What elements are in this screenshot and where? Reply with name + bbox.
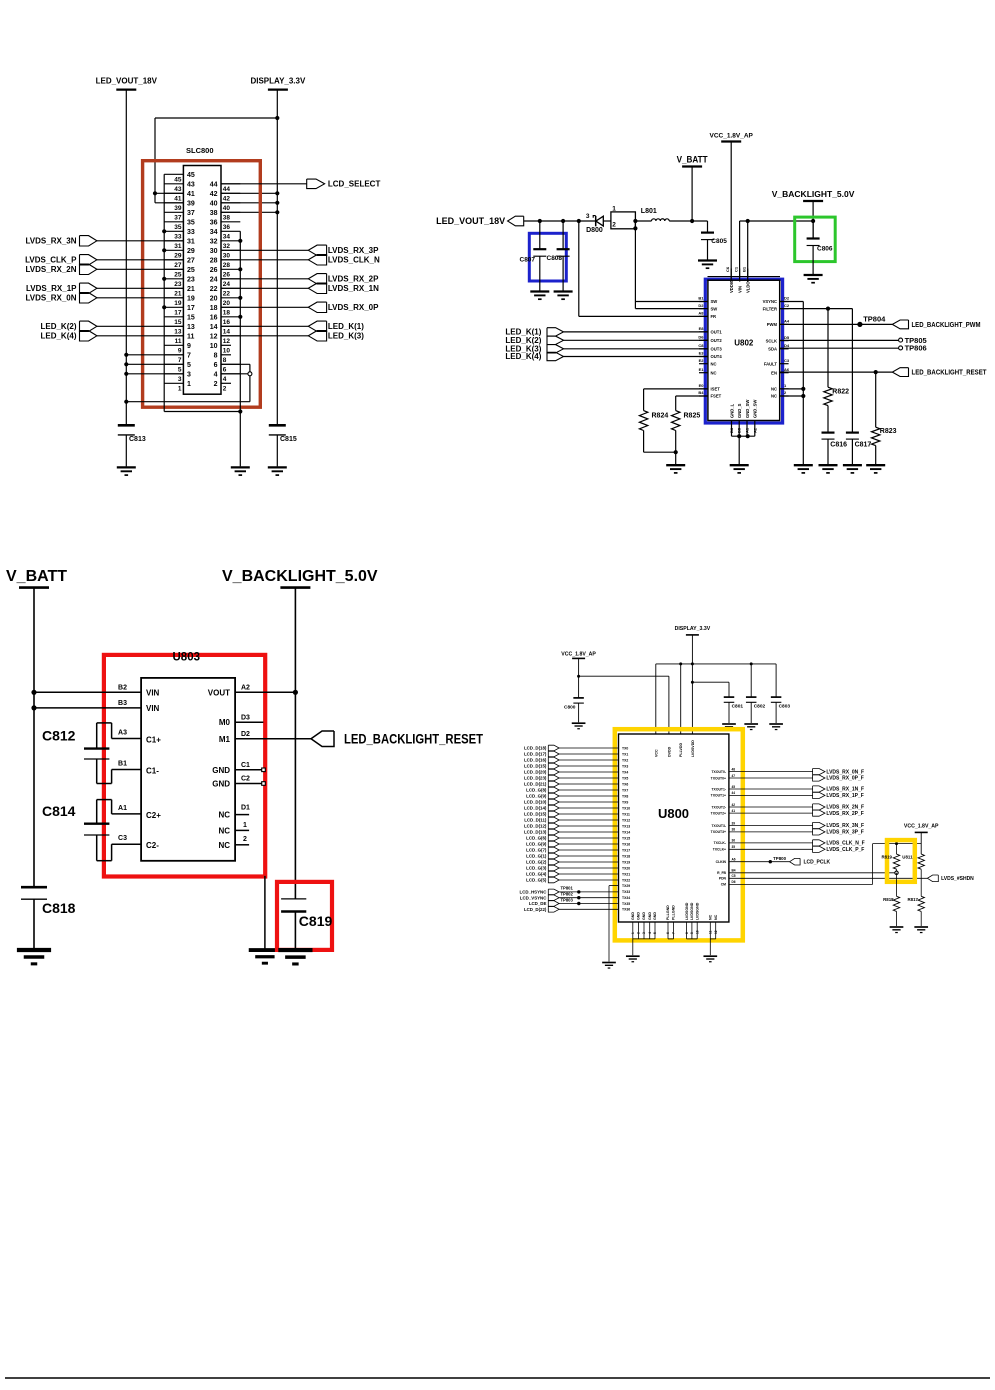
svg-text:C816: C816	[830, 442, 847, 449]
svg-text:45: 45	[174, 177, 182, 184]
svg-text:36: 36	[732, 839, 736, 843]
svg-text:TX10: TX10	[622, 806, 630, 810]
wire pins41-39 to DISPLAY_3.3V	[153, 118, 277, 203]
wire VCC to VDDIO	[730, 142, 732, 282]
svg-text:LVDS_RX_1P_F: LVDS_RX_1P_F	[826, 793, 863, 799]
svg-text:PDN: PDN	[719, 877, 727, 881]
svg-text:LVDSGND: LVDSGND	[695, 902, 699, 920]
svg-text:U811: U811	[902, 855, 913, 860]
svg-text:LCD_D(16): LCD_D(16)	[524, 758, 547, 763]
svg-text:VOUT: VOUT	[208, 688, 230, 697]
svg-text:10: 10	[223, 348, 231, 355]
svg-text:GND_S: GND_S	[737, 403, 742, 418]
svg-text:TP806: TP806	[905, 344, 927, 353]
svg-text:44: 44	[732, 791, 736, 795]
svg-text:V_BACKLIGHT_5.0V: V_BACKLIGHT_5.0V	[772, 189, 855, 199]
svg-text:25: 25	[174, 272, 182, 279]
ground C818	[17, 950, 51, 964]
svg-text:11: 11	[709, 930, 713, 934]
svg-text:B1: B1	[118, 761, 127, 768]
ground middle	[231, 467, 250, 475]
svg-text:TX19: TX19	[622, 860, 630, 864]
svg-text:L801: L801	[641, 208, 657, 215]
wire pin5 to rail	[126, 363, 183, 365]
svg-text:GND: GND	[212, 780, 230, 789]
svg-text:A8: A8	[698, 311, 704, 316]
svg-text:R825: R825	[684, 413, 701, 420]
capacitor C817	[846, 433, 872, 466]
ground C803	[769, 724, 783, 730]
svg-text:42: 42	[732, 803, 736, 807]
svg-text:A4: A4	[784, 319, 790, 324]
svg-text:36: 36	[210, 219, 218, 226]
svg-text:TX34: TX34	[622, 896, 630, 900]
wire LVDS_RX_1N	[221, 287, 308, 289]
svg-text:TXOUT3+: TXOUT3+	[711, 830, 726, 834]
svg-text:1: 1	[243, 822, 247, 829]
svg-text:E3: E3	[699, 351, 705, 356]
port LED_K(4)	[40, 331, 96, 341]
svg-text:A6: A6	[732, 858, 736, 862]
svg-text:LCD_VSYNC: LCD_VSYNC	[520, 895, 547, 900]
svg-text:DVDD: DVDD	[667, 746, 671, 757]
svg-text:LCD_HSYNC: LCD_HSYNC	[520, 890, 548, 895]
svg-text:M0: M0	[219, 718, 231, 727]
svg-text:LCD_D(15): LCD_D(15)	[524, 812, 547, 817]
svg-text:18: 18	[223, 310, 231, 317]
ground C817	[843, 465, 862, 473]
port LED_K(3)	[308, 331, 364, 341]
svg-text:NC: NC	[709, 914, 713, 920]
ground C802	[744, 724, 758, 730]
port LVDS_CLK_P	[25, 255, 97, 265]
capacitor C813	[118, 425, 146, 443]
svg-text:SCLK: SCLK	[766, 338, 777, 343]
svg-text:NC: NC	[711, 361, 717, 366]
wire R822 to C816	[827, 406, 829, 433]
svg-text:C806: C806	[817, 246, 833, 253]
svg-text:37: 37	[174, 215, 182, 222]
wire LCD_PCLK	[716, 858, 790, 865]
resistor R819	[882, 844, 914, 875]
svg-text:A6: A6	[784, 367, 790, 372]
svg-text:10: 10	[695, 930, 699, 934]
ground C815	[268, 467, 287, 475]
ground C813	[117, 467, 136, 475]
svg-text:7: 7	[672, 932, 676, 934]
svg-text:LVDSVDD: LVDSVDD	[691, 740, 695, 757]
resistor R822	[824, 387, 849, 405]
power flag V_BACKLIGHT_5.0V (U802)	[772, 189, 855, 201]
svg-text:SDA: SDA	[768, 347, 777, 352]
svg-text:31: 31	[187, 238, 195, 245]
wire LCD_SELECT	[221, 183, 307, 185]
svg-text:SLC800: SLC800	[186, 146, 214, 155]
svg-text:VCC: VCC	[654, 749, 658, 757]
svg-text:27: 27	[187, 257, 195, 264]
svg-text:U803: U803	[173, 652, 201, 664]
svg-text:D3: D3	[241, 714, 250, 721]
svg-text:C1-: C1-	[146, 766, 159, 775]
ground R823	[866, 465, 885, 473]
IC U802 right pins	[763, 296, 790, 399]
resistor R823	[872, 427, 897, 445]
port LED_K(3) (U802)	[505, 344, 563, 353]
svg-text:LVDS_CLK_N: LVDS_CLK_N	[328, 256, 380, 265]
svg-text:TX0: TX0	[622, 746, 628, 750]
svg-text:LCD_PCLK: LCD_PCLK	[804, 859, 831, 865]
wire LED_K(1)	[221, 325, 308, 327]
svg-text:NC: NC	[218, 826, 230, 835]
ports LCD data bus	[524, 745, 630, 883]
node TP804	[857, 314, 886, 327]
svg-text:12: 12	[210, 333, 218, 340]
svg-text:24: 24	[223, 281, 231, 288]
svg-text:OUT2: OUT2	[711, 338, 723, 343]
wire VSYNC to gnd	[780, 302, 806, 466]
svg-text:A3: A3	[118, 730, 127, 737]
svg-text:TX2: TX2	[622, 758, 628, 762]
svg-text:LED_VOUT_18V: LED_VOUT_18V	[436, 216, 505, 226]
svg-text:EN: EN	[771, 370, 777, 375]
wire pins6-4 to rail	[126, 364, 252, 401]
svg-text:3: 3	[178, 376, 182, 383]
wire CLKSEL net	[721, 842, 921, 887]
svg-text:C2+: C2+	[146, 811, 161, 820]
ground C816	[819, 465, 838, 473]
port LCD_SELECT	[307, 179, 381, 189]
svg-text:LCD_G(9): LCD_G(9)	[526, 794, 547, 799]
svg-text:B3: B3	[118, 700, 127, 707]
svg-text:TX1: TX1	[622, 752, 628, 756]
svg-text:DISPLAY_3.3V: DISPLAY_3.3V	[675, 626, 711, 632]
highlight box SLC800	[143, 161, 261, 408]
svg-text:OUT3: OUT3	[711, 347, 723, 352]
svg-text:C2: C2	[241, 776, 250, 783]
svg-text:22: 22	[210, 286, 218, 293]
svg-text:27: 27	[174, 262, 182, 269]
svg-text:16: 16	[223, 319, 231, 326]
svg-text:C815: C815	[280, 436, 297, 443]
port LVDS_RX_2N	[26, 264, 97, 274]
svg-text:C808: C808	[547, 255, 563, 262]
svg-text:7: 7	[187, 352, 191, 359]
svg-text:D2: D2	[698, 303, 704, 308]
svg-text:C801: C801	[732, 704, 744, 710]
svg-text:1: 1	[178, 386, 182, 393]
svg-text:25: 25	[187, 267, 195, 274]
svg-text:FSET: FSET	[711, 394, 722, 399]
wire left ground bus	[162, 174, 242, 413]
wire LED_K(1) (U802)	[564, 331, 708, 333]
svg-text:D4: D4	[784, 343, 790, 348]
svg-text:TXOUT3-: TXOUT3-	[711, 824, 726, 828]
wire U800 nc drop	[709, 939, 711, 955]
svg-text:10: 10	[210, 343, 218, 350]
svg-text:LCD_G(6): LCD_G(6)	[526, 836, 547, 841]
svg-text:TX5: TX5	[622, 776, 628, 780]
svg-text:FAULT: FAULT	[764, 361, 778, 366]
wire FB tap	[579, 221, 708, 316]
svg-text:C802: C802	[754, 704, 766, 710]
svg-text:TX7: TX7	[622, 788, 628, 792]
svg-text:E0: E0	[699, 383, 705, 388]
svg-text:33: 33	[174, 234, 182, 241]
diode D800 package	[611, 205, 636, 228]
wire pin42 to rail	[221, 192, 277, 194]
connector SLC800 pins	[164, 172, 240, 393]
wire LED_K(3)	[221, 335, 308, 337]
svg-text:LCD_D(13): LCD_D(13)	[524, 830, 547, 835]
svg-text:VIN: VIN	[146, 704, 160, 713]
svg-text:LCD_D(17): LCD_D(17)	[524, 752, 547, 757]
port LED_K(2)	[40, 321, 96, 331]
svg-text:17: 17	[187, 305, 195, 312]
svg-text:LCD_G(4): LCD_G(4)	[526, 872, 547, 877]
svg-text:SW: SW	[711, 299, 718, 304]
svg-text:C1+: C1+	[146, 735, 161, 744]
ground R817	[914, 927, 928, 933]
svg-text:12: 12	[714, 930, 718, 934]
power flag V_BATT (U803)	[6, 568, 67, 588]
resistor R817	[908, 896, 925, 926]
highlight box C807 C808	[529, 233, 566, 281]
svg-text:12: 12	[223, 338, 231, 345]
ground unused TX	[602, 963, 616, 969]
svg-text:15: 15	[187, 314, 195, 321]
svg-text:TP801: TP801	[561, 886, 574, 891]
svg-text:42: 42	[223, 196, 231, 203]
svg-text:48: 48	[732, 767, 736, 771]
ground C801	[722, 724, 736, 730]
wire pin40 to rail	[221, 202, 277, 204]
svg-text:LVDS_RX_2P_F: LVDS_RX_2P_F	[826, 811, 863, 817]
svg-text:C807: C807	[520, 257, 536, 264]
svg-text:TX3: TX3	[622, 764, 628, 768]
svg-text:LED_K(4): LED_K(4)	[40, 331, 76, 340]
svg-text:B1: B1	[742, 266, 747, 272]
svg-text:20: 20	[210, 295, 218, 302]
svg-text:29: 29	[174, 253, 182, 260]
wire LVDS_CLK_N	[221, 259, 308, 261]
svg-text:GND_SW: GND_SW	[753, 400, 758, 418]
IC U803 right pin labels	[208, 684, 250, 850]
svg-text:LVDS_RX_0N: LVDS_RX_0N	[26, 293, 77, 302]
port LVDS_CLK_N	[308, 255, 380, 265]
svg-text:6: 6	[223, 367, 227, 374]
svg-text:LVDS_RX_0P_F: LVDS_RX_0P_F	[826, 776, 863, 782]
svg-text:1: 1	[612, 205, 616, 212]
svg-text:U802: U802	[734, 339, 754, 348]
svg-text:TP803: TP803	[561, 897, 574, 902]
wire R823 to gnd	[875, 446, 877, 466]
port LVDS_RX_3P	[308, 245, 379, 255]
wire PDN net	[719, 874, 928, 881]
svg-text:19: 19	[174, 300, 182, 307]
svg-text:LED_BACKLIGHT_RESET: LED_BACKLIGHT_RESET	[912, 368, 987, 377]
highlight box U803	[104, 655, 265, 877]
svg-text:LED_VOUT_18V: LED_VOUT_18V	[96, 77, 158, 86]
ground C819	[278, 950, 312, 964]
svg-text:TX8: TX8	[622, 794, 628, 798]
svg-text:D5: D5	[784, 335, 790, 340]
wire pin38 to rail	[221, 211, 277, 213]
ground C805	[698, 261, 717, 269]
svg-text:40: 40	[223, 205, 231, 212]
svg-text:CM: CM	[721, 883, 726, 887]
wire VIN B3	[34, 707, 141, 709]
svg-text:A1: A1	[745, 427, 750, 433]
svg-text:1: 1	[631, 932, 635, 934]
svg-text:C800: C800	[564, 705, 576, 711]
svg-text:V_BATT: V_BATT	[677, 155, 708, 165]
capacitor C819	[281, 899, 332, 949]
ports LVDS outputs	[711, 767, 865, 853]
wire ISET	[644, 389, 708, 411]
svg-text:14: 14	[223, 329, 231, 336]
svg-text:TX14: TX14	[622, 830, 630, 834]
svg-text:A2: A2	[752, 427, 757, 433]
svg-text:NC: NC	[714, 914, 718, 920]
svg-text:TX13: TX13	[622, 824, 630, 828]
svg-text:OUT4: OUT4	[711, 354, 723, 359]
svg-text:U800: U800	[658, 806, 689, 821]
svg-text:LCD_D(10): LCD_D(10)	[524, 800, 547, 805]
svg-text:B1: B1	[698, 296, 704, 301]
svg-text:LED_BACKLIGHT_PWM: LED_BACKLIGHT_PWM	[912, 320, 981, 329]
svg-text:TX4: TX4	[622, 770, 628, 774]
svg-text:B4: B4	[698, 390, 704, 395]
wire NC pins to gnd line	[780, 389, 804, 396]
svg-text:C8: C8	[698, 343, 704, 348]
svg-text:9: 9	[690, 932, 694, 934]
svg-text:14: 14	[210, 324, 218, 331]
svg-text:42: 42	[210, 191, 218, 198]
svg-text:LVDS_RX_1N_F: LVDS_RX_1N_F	[826, 787, 864, 793]
op-amp U802 highlight box	[705, 279, 782, 423]
svg-text:LCD_D(14): LCD_D(14)	[524, 806, 547, 811]
svg-text:NC: NC	[771, 387, 777, 392]
svg-text:C3: C3	[118, 835, 127, 842]
svg-text:TXOUT2+: TXOUT2+	[711, 811, 726, 815]
svg-text:TXOUT2-: TXOUT2-	[711, 805, 726, 809]
svg-text:LVDS_RX_3P: LVDS_RX_3P	[328, 246, 379, 255]
capacitor C816	[822, 433, 848, 466]
wire LVDS_RX_1P	[97, 287, 183, 289]
capacitor C815	[269, 425, 297, 443]
svg-text:35: 35	[174, 224, 182, 231]
svg-text:45: 45	[187, 172, 195, 179]
wire M0 stub	[235, 721, 263, 723]
svg-text:TP802: TP802	[561, 892, 574, 897]
capacitor C818	[21, 887, 76, 948]
wire LED_K(4) (U802)	[564, 356, 708, 358]
capacitor C803	[771, 697, 791, 723]
highlight box C806	[795, 217, 836, 262]
svg-text:DISPLAY_3.3V: DISPLAY_3.3V	[250, 77, 306, 86]
ground U800 nc	[703, 956, 717, 962]
resistor R825	[672, 411, 701, 431]
node TP805	[899, 336, 927, 345]
wire LED_K(3) (U802)	[564, 348, 708, 350]
svg-text:VDDIO: VDDIO	[729, 279, 734, 293]
port LED_K(2) (U802)	[505, 336, 563, 345]
svg-text:45: 45	[732, 785, 736, 789]
svg-text:M1: M1	[219, 735, 231, 744]
svg-text:B4: B4	[732, 869, 736, 873]
svg-text:V_BACKLIGHT_5.0V: V_BACKLIGHT_5.0V	[222, 568, 378, 585]
svg-text:LVDS_RX_0N_F: LVDS_RX_0N_F	[826, 769, 864, 775]
svg-text:D6: D6	[732, 880, 736, 884]
node TP800	[769, 856, 787, 863]
svg-text:38: 38	[210, 210, 218, 217]
svg-text:LVDSGND: LVDSGND	[685, 902, 689, 920]
svg-text:LED_K(2): LED_K(2)	[40, 322, 76, 331]
svg-text:LCD_G(3): LCD_G(3)	[526, 866, 547, 871]
svg-text:TX29: TX29	[622, 884, 630, 888]
power flag V_BACKLIGHT_5.0V (U803)	[222, 568, 378, 588]
svg-text:47: 47	[732, 774, 736, 778]
capacitor C801	[724, 697, 744, 723]
IC U803 left pin labels	[118, 684, 161, 850]
svg-text:13: 13	[187, 324, 195, 331]
svg-text:2: 2	[214, 381, 218, 388]
wire GND pins (U803)	[235, 768, 265, 949]
svg-text:C6: C6	[725, 266, 730, 272]
svg-text:LCD_G(8): LCD_G(8)	[526, 788, 547, 793]
highlight box U800	[615, 729, 743, 940]
svg-text:LCD_SELECT: LCD_SELECT	[328, 180, 381, 189]
power flag LED_VOUT_18V	[96, 77, 158, 90]
svg-text:29: 29	[187, 248, 195, 255]
svg-text:LVDS_RX_3P_F: LVDS_RX_3P_F	[826, 830, 863, 836]
capacitor C808	[547, 221, 570, 291]
ground C800	[572, 723, 586, 729]
wire SDA	[780, 347, 899, 349]
wire pin7 to rail	[126, 354, 183, 356]
wire VCC net (U800)	[577, 658, 669, 734]
port LED_BACKLIGHT_PWM	[892, 320, 980, 329]
capacitor C805	[701, 221, 727, 260]
svg-text:V_BATT: V_BATT	[6, 568, 67, 585]
svg-text:18: 18	[210, 305, 218, 312]
wire unused TX to gnd	[609, 884, 630, 962]
wire VCC right drop	[920, 832, 922, 854]
svg-text:39: 39	[187, 200, 195, 207]
svg-text:24: 24	[210, 276, 218, 283]
svg-text:28: 28	[223, 262, 231, 269]
svg-text:LCD_D(22): LCD_D(22)	[524, 907, 547, 912]
svg-text:PLLGND: PLLGND	[666, 905, 670, 920]
svg-text:C803: C803	[779, 704, 791, 710]
svg-text:2: 2	[612, 222, 616, 229]
wire LVDS_CLK_P	[97, 259, 183, 261]
svg-text:LCD_G(7): LCD_G(7)	[526, 848, 547, 853]
svg-text:LCD_G(2): LCD_G(2)	[526, 860, 547, 865]
wire NC stubs (U803)	[235, 815, 249, 845]
svg-text:C813: C813	[129, 436, 146, 443]
wire SCLK	[780, 339, 899, 341]
svg-text:LED_K(1): LED_K(1)	[328, 322, 364, 331]
svg-text:C814: C814	[42, 803, 76, 819]
svg-text:OUT1: OUT1	[711, 330, 723, 335]
port LED_K(1) (U802)	[505, 328, 563, 337]
svg-text:31: 31	[174, 243, 182, 250]
wire LVDS_RX_0P	[221, 306, 308, 308]
svg-text:LVDS_RX_1N: LVDS_RX_1N	[328, 284, 379, 293]
svg-text:TXOUT1-: TXOUT1-	[711, 787, 726, 791]
wire DISPLAY_3.3V rail	[275, 90, 279, 426]
